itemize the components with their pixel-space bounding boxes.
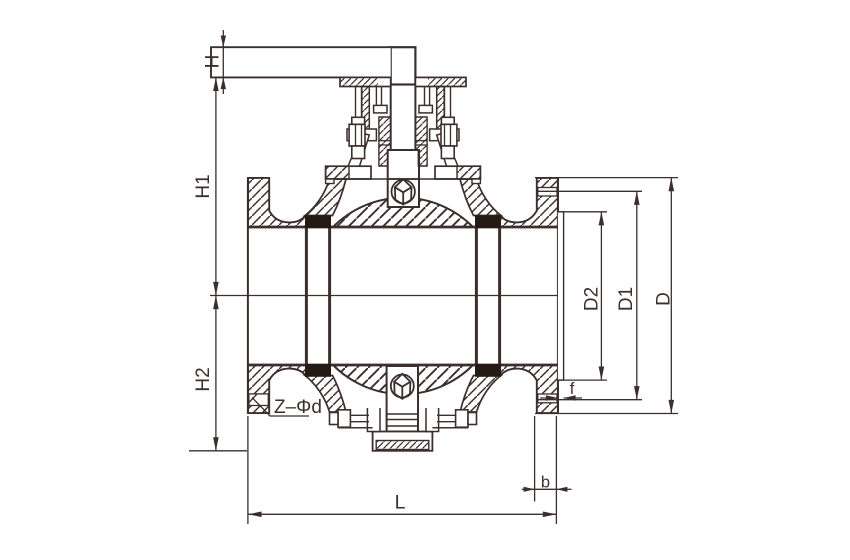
svg-text:Z–Φd: Z–Φd [274, 397, 322, 418]
label Z-Phi-d [274, 397, 322, 418]
seat ring lower-right (black) [475, 364, 501, 377]
packing follower tab left [374, 105, 387, 113]
body neck wall upper-left [305, 179, 346, 216]
ball lower segment (hatched) [333, 365, 473, 394]
body neck wall upper-right [460, 179, 501, 216]
bonnet skirt right [437, 133, 458, 166]
svg-text:H: H [203, 55, 224, 69]
stem shaft [391, 85, 416, 151]
left flange bottom bolt hole (white band) [249, 394, 268, 406]
gland bolt stud right [445, 87, 451, 118]
stem section symbol (circle with cube) [392, 179, 415, 204]
right flange face line full height [557, 178, 559, 413]
packing follower tab right [419, 105, 432, 113]
extension line bolt circle bottom to D1 [537, 399, 642, 401]
valve body upper-left shell and left flange top [248, 178, 306, 227]
dimension L line [248, 512, 557, 518]
right flange raised face [558, 212, 564, 380]
L extension line left [247, 416, 249, 524]
label b [541, 474, 550, 492]
dimension D1 vertical line [634, 191, 640, 399]
centerline [210, 295, 558, 297]
bonnet inner wall lines right [425, 87, 430, 106]
gland bolt stud left [356, 87, 362, 118]
mounting plate left segment [340, 77, 391, 86]
bottom body lower edge right [432, 427, 468, 429]
body neck wall lower-right [460, 376, 501, 413]
extension line raised face top to D2 [558, 211, 607, 213]
gland arm right [430, 129, 459, 141]
b extension line left [534, 416, 536, 502]
seat ring upper-left (black) [305, 215, 331, 228]
label D1 [616, 287, 637, 311]
left seat tube lines [306, 227, 329, 365]
bottom bolt right washer [468, 413, 477, 425]
label f [570, 380, 575, 398]
bore top line [247, 226, 558, 229]
svg-text:H2: H2 [193, 367, 214, 391]
packing box left (hatched) [379, 117, 391, 166]
H2 bottom reference line [189, 450, 247, 452]
left flange face line full height [247, 178, 249, 413]
svg-text:D: D [654, 292, 675, 306]
packing box right (hatched) [415, 117, 427, 166]
ball upper segment (hatched dome) [333, 198, 473, 227]
valve body lower-left shell and left flange bottom [248, 365, 306, 413]
handle lever bar [211, 47, 391, 77]
top flange plate outer tab right [472, 179, 480, 184]
bottom cover plate [373, 432, 433, 451]
bonnet leg right (hatched) [437, 87, 445, 136]
label L [395, 492, 406, 514]
bottom body lower edge left [338, 427, 373, 429]
label H2 [193, 367, 214, 391]
bore bottom line [247, 364, 558, 367]
extension line bolt circle top to D1 [537, 190, 642, 192]
bottom bolt left nut [338, 410, 350, 427]
bottom cover ear right (white U) [426, 408, 439, 432]
dimension H1-H2 vertical line [213, 77, 219, 450]
gland bolt left [349, 117, 365, 158]
top flange plate outer tab left [326, 179, 334, 184]
bonnet skirt left [348, 133, 369, 166]
dimension f line and arrows [540, 395, 582, 401]
bottom bolt right shank [437, 415, 456, 421]
stem coupling block (lower, over ball) [388, 150, 419, 207]
valve body upper-right shell and right flange top [500, 178, 558, 227]
gland bolt right [441, 117, 457, 158]
extension line flange bottom to D [535, 413, 678, 415]
label D2 [582, 287, 603, 311]
svg-text:D2: D2 [582, 287, 603, 311]
svg-text:b: b [541, 474, 550, 492]
dimension b line and arrows [522, 487, 572, 492]
seat ring upper-right (black) [475, 215, 501, 228]
svg-text:D1: D1 [616, 287, 637, 311]
label H1 [193, 174, 214, 198]
leader Z-Phi-d [249, 394, 310, 416]
seat ring lower-left (black) [305, 364, 331, 377]
bottom cover ear left (white U) [367, 408, 380, 432]
dimension D2 vertical line [599, 212, 605, 380]
bottom bolt left washer [330, 413, 339, 425]
lower trunnion column [387, 366, 418, 432]
right seat tube lines [476, 227, 499, 365]
bonnet inner wall lines left [376, 87, 381, 106]
dimension H vertical line [221, 30, 226, 94]
right flange top bolt hole (white band) [538, 188, 557, 197]
bonnet bottom face line [326, 178, 481, 180]
body top flange plate right [435, 166, 480, 179]
label D [654, 292, 675, 306]
bottom bolt left shank [350, 415, 369, 421]
body top flange plate left [326, 166, 371, 179]
L and b extension line right [555, 416, 557, 524]
valve body lower-right shell and right flange bottom [500, 365, 558, 413]
mounting plate right segment [415, 77, 466, 86]
bonnet leg left (hatched) [362, 87, 370, 136]
bottom bolt right nut [456, 410, 468, 427]
trunnion section symbol (circle with cube) [391, 374, 414, 399]
gland arm left [347, 129, 376, 141]
dimension D vertical line [669, 178, 675, 414]
extension line flange top to D [535, 177, 678, 179]
svg-text:L: L [395, 492, 406, 514]
stem square head [391, 47, 416, 84]
svg-text:f: f [570, 380, 575, 398]
extension line raised face bottom to D2 [558, 379, 607, 381]
svg-text:H1: H1 [193, 174, 214, 198]
label H [203, 55, 224, 69]
body neck wall lower-left [305, 376, 346, 413]
right flange bottom bolt hole (white band) [538, 394, 557, 403]
